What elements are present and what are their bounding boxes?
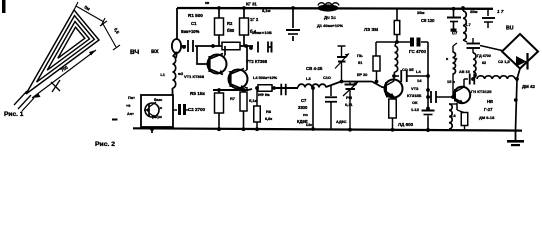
label R7 [230,96,257,103]
label СО 36 [402,67,414,72]
svg-text:ЛД 600: ЛД 600 [398,122,414,127]
label L4 20мк [253,75,278,80]
svg-text:АВ 15: АВ 15 [459,70,470,74]
wire L-link [376,41,397,43]
svg-text:кв: кв [205,1,210,5]
svg-text:14: 14 [417,78,422,83]
svg-text:ОК: ОК [412,100,418,105]
svg-text:51: 51 [358,60,363,65]
coil L1 [160,56,183,88]
svg-text:базс: базс [154,98,162,102]
caption Рис. 2 [95,119,118,149]
resistor R7 [240,90,247,129]
svg-text:ГН КТЗ125: ГН КТЗ125 [471,89,492,94]
label РМ 0,1 [345,95,353,107]
wire input node [182,44,227,49]
svg-text:L7: L7 [466,22,471,27]
svg-text:Г-27: Г-27 [484,107,493,112]
label L5 40мк [317,23,343,28]
label VT4 КТ3125 [471,89,492,94]
label C3 43 [250,17,259,34]
svg-text:3300: 3300 [298,105,308,110]
wire to box [173,52,178,95]
svg-text:КГ 31: КГ 31 [246,2,257,7]
capacitor C16 series [470,74,475,85]
capacitor C10 to ground [325,86,337,129]
svg-text:ЕР 20: ЕР 20 [357,73,367,77]
wire bottom ground rail [133,128,522,130]
label АВ 15 [459,70,470,74]
transistor VT3 [381,76,403,98]
svg-text:С7: С7 [452,31,458,36]
label C16 5-27 block [479,99,495,120]
wire VT1 emitter [224,72,230,74]
wire left branch [176,8,177,58]
label R1 500 / L2 [181,13,203,34]
svg-text:Ант: Ант [127,112,134,116]
wire tank branch [463,38,473,43]
svg-text:3,1м: 3,1м [262,8,271,13]
transistor in box [144,102,159,118]
label BF1 [506,26,514,32]
capacitor C6 electrolytic [447,7,461,32]
ground symbol [507,130,524,146]
svg-text:R6: R6 [266,109,272,114]
svg-text:Рис. 2: Рис. 2 [95,141,115,148]
svg-text:20мк × 10В: 20мк × 10В [252,30,272,35]
coil L8 base branch [446,43,458,99]
svg-text:по: по [303,112,308,117]
coil L9 tank [471,53,476,81]
label R9 [447,79,456,84]
svg-text:б,1к: б,1к [249,98,257,103]
label C2 2700 [188,107,206,112]
capacitor C1 [188,40,193,52]
svg-text:ГС 4700: ГС 4700 [409,49,426,54]
label R2 680 [227,21,235,33]
svg-text:СВ 4-25: СВ 4-25 [306,66,323,71]
wire diamond bottom drop [514,69,520,131]
svg-text:1Г 2: 1Г 2 [250,17,259,22]
svg-text:R2: R2 [227,21,233,26]
svg-text:СО Зб: СО Зб [402,67,414,72]
label ЕР 20 [357,73,367,77]
svg-text:ДМ 42: ДМ 42 [522,84,535,89]
svg-text:НВ: НВ [487,99,493,104]
svg-text:6,8к: 6,8к [265,117,272,121]
label C11 4-25 [306,66,323,71]
svg-text:62: 62 [482,61,486,65]
capacitor C2 plates [173,104,189,115]
label R8 12к [265,109,272,121]
svg-text:0,11: 0,11 [345,102,353,107]
label 3,1м [262,8,271,13]
svg-text:Д1 40мк+10%: Д1 40мк+10% [317,23,343,28]
coil L3 in bias line [298,76,384,88]
svg-text:VT3: VT3 [411,86,419,91]
resistor R1 [215,6,224,46]
svg-text:ГД 4700: ГД 4700 [477,54,491,58]
capacitor on x428 bottom [422,107,435,117]
label C7 3300 block [297,98,308,124]
svg-text:ПЬ: ПЬ [357,53,363,58]
svg-text:б80: б80 [227,28,235,33]
capacitor C12 series pair [401,69,430,82]
svg-text:Пит: Пит [128,96,135,100]
label С12 4700 [409,49,426,54]
transistor VT4 [454,87,470,103]
capacitor C8 horizontal [397,38,428,47]
coil L7 output horizontal [477,76,517,79]
wire top supply rail [177,7,493,10]
svg-text:R1 500: R1 500 [188,13,203,18]
svg-text:VT2 КТ368: VT2 КТ368 [246,59,268,64]
svg-text:+9: +9 [126,104,130,108]
wire to diamond [480,46,502,51]
box stub [150,127,154,133]
antenna W1 triangular loop [14,10,99,111]
bottom rail dots [217,127,430,132]
coil L5 from rail [461,6,471,40]
wire bias node y88 [213,88,248,92]
svg-text:25м: 25м [417,10,424,15]
label ОК 1-12 [411,100,420,112]
svg-text:8мк+10%: 8мк+10% [181,29,200,34]
capacitor C13 tank top [467,44,481,54]
resistor R10 [389,99,397,132]
svg-text:L3: L3 [306,76,311,81]
svg-text:15 в: 15 в [447,79,456,84]
connector XW1 ВЧ вх [130,39,181,56]
svg-text:L6: L6 [451,113,456,118]
wire to rail with C5 [291,6,295,41]
wire VT4 base [426,95,430,99]
svg-text:L4 500к+10%: L4 500к+10% [253,75,278,80]
label 62 [482,61,486,65]
svg-text:С1: С1 [191,21,197,26]
svg-text:VT1 КТ368: VT1 КТ368 [184,74,205,79]
resistor R5 [215,90,224,131]
svg-text:С2 2700: С2 2700 [188,107,206,112]
svg-text:1 7: 1 7 [497,9,504,14]
svg-text:ЛЗ ЗМ: ЛЗ ЗМ [364,27,378,32]
svg-text:С8 120: С8 120 [421,18,435,23]
svg-text:вх: вх [151,48,159,55]
svg-text:С2 1,5: С2 1,5 [498,59,511,64]
svg-text:L1: L1 [160,72,165,77]
wire after R3 [240,44,253,48]
antenna dimension 700 bottom [32,50,96,98]
choke Др1 on rail [318,3,340,12]
label R5 15к [190,91,206,96]
wire drop x428 [426,42,430,132]
resistor R4 from rail [394,8,400,44]
resistor R8 vertical drop [254,88,261,129]
capacitor C4 series [249,42,271,53]
label C7 [452,31,458,36]
svg-text:ДМ 6-18: ДМ 6-18 [479,115,495,120]
svg-text:ИФ Иа: ИФ Иа [258,93,270,97]
svg-text:КТ315Б: КТ315Б [407,93,422,98]
label C14 1,5 [498,59,511,64]
wire VT3 emitter [393,97,394,100]
svg-text:ВЧ: ВЧ [130,49,140,56]
svg-text:1-12: 1-12 [411,107,420,112]
box pin labels [126,96,162,119]
label +9В arrow [497,9,504,14]
resistor R9 drop [373,42,380,83]
label 20мк х 10В [252,30,272,35]
wire drop x313 [311,86,315,131]
svg-text:Рис. 1: Рис. 1 [4,111,24,118]
antenna dimension right side [100,21,121,50]
label R3 3М [364,27,378,32]
label 25м right [470,9,477,14]
trimmer capacitor C11 upper [335,46,349,83]
svg-text:С7: С7 [301,98,307,103]
label R8 51 [357,53,363,65]
label С10 [323,76,331,80]
capacitor C14 in base [431,91,455,103]
svg-text:25м: 25м [470,9,477,14]
svg-text:и: и [446,57,448,61]
label VT2 КТ368 [246,59,268,64]
svg-text:L4: L4 [416,69,421,74]
label R10 600 [398,122,414,127]
wire VT3 collector link [392,74,399,78]
resistor R3 [222,42,240,50]
coil L6 [449,104,456,129]
label VT1 КТ368 [184,74,205,79]
svg-text:R5 15к: R5 15к [190,91,206,96]
antenna dimension 0,5м top [74,2,105,26]
resistor R6 horizontal [248,84,298,96]
svg-text:R7: R7 [230,96,235,101]
label Др1 1к [324,15,336,20]
svg-text:w2: w2 [177,72,183,76]
resistor R2 [240,6,249,46]
capacitor C5 electrolytic [286,30,300,34]
label Шх [306,120,347,127]
label VT3 КТ315Б [407,78,422,98]
transistor VT1 [197,46,227,75]
page edge mark [2,0,6,13]
label ДМ 42 [522,84,535,89]
antenna feed tick [51,80,60,92]
small top labels [205,1,257,7]
svg-text:1с: 1с [158,106,162,110]
svg-text:С1О: С1О [323,76,331,80]
svg-text:BU: BU [506,26,514,32]
svg-text:Шх: Шх [306,123,313,127]
svg-text:АД9С: АД9С [336,120,347,124]
transistor VT2 [229,46,248,90]
capacitor C17 electrolytic right [482,8,495,28]
label 25м C8 [417,10,435,23]
label C9 68к [258,93,270,97]
label ГД 4700 [477,54,491,58]
wire VT4 emitter [449,103,468,130]
phone BF1 diamond [502,34,538,70]
coil L4 collector [394,42,398,76]
svg-text:Дч 1с: Дч 1с [324,15,336,20]
caption Рис. 1 [4,111,24,118]
trimmer capacitor C12 lower [343,82,358,130]
wire VT2 emitter to bias node [245,87,248,90]
svg-text:(1б)ш: (1б)ш [152,115,162,119]
wire VT4 collector [464,79,468,87]
box transistor pinout [141,95,173,127]
